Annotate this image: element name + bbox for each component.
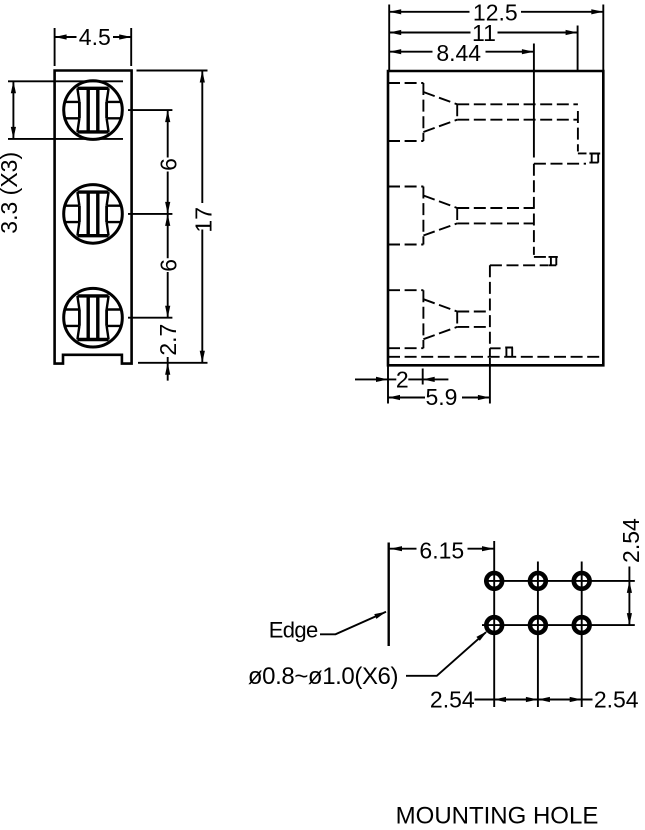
dimension 2 xyxy=(355,367,448,393)
svg-text:2.54: 2.54 xyxy=(430,686,475,712)
leader hole diameter xyxy=(248,629,489,690)
dimension 11 xyxy=(389,20,578,70)
dimension 2.54 vertical xyxy=(618,518,644,625)
hidden reflector 2 xyxy=(423,196,457,236)
svg-text:2.54: 2.54 xyxy=(618,518,644,563)
svg-text:4.5: 4.5 xyxy=(79,24,111,50)
dimension 2.7 xyxy=(155,324,181,381)
mounting hole B1 xyxy=(486,617,502,633)
svg-text:2: 2 xyxy=(396,367,409,393)
leader Edge xyxy=(269,609,388,642)
svg-text:Edge: Edge xyxy=(269,617,318,642)
svg-text:MOUNTING HOLE: MOUNTING HOLE xyxy=(396,803,599,830)
lead latch 1 xyxy=(589,154,600,163)
side view inner bottom dashed line xyxy=(388,356,603,358)
dimension 12.5 xyxy=(389,0,604,70)
edge line xyxy=(388,543,390,647)
svg-text:5.9: 5.9 xyxy=(426,384,458,410)
side view body xyxy=(388,71,603,365)
hidden lead 1 xyxy=(457,104,586,163)
svg-text:2.7: 2.7 xyxy=(155,324,181,356)
dimension 2.54 right xyxy=(538,686,639,712)
svg-text:17: 17 xyxy=(191,207,217,233)
dimension 4.5 xyxy=(55,24,132,66)
mounting hole A3 xyxy=(574,573,590,589)
svg-text:3.3 (X3): 3.3 (X3) xyxy=(0,152,22,234)
dimension 3.3 (X3) xyxy=(0,81,123,233)
dimension 5.9 xyxy=(388,358,490,410)
dimension 6 upper xyxy=(155,110,181,214)
mounting hole A1 xyxy=(486,573,502,589)
svg-text:8.44: 8.44 xyxy=(436,40,481,66)
dimension 17 xyxy=(137,71,217,363)
LED lens 1 xyxy=(64,81,123,140)
dimension 8.44 xyxy=(389,40,534,158)
lead latch 3 xyxy=(505,348,513,357)
hole grid lines xyxy=(482,541,635,707)
LED centerline extensions xyxy=(128,110,172,318)
hidden LED body 2 xyxy=(388,187,423,245)
dimension 6.15 xyxy=(390,538,495,564)
hidden LED body 1 xyxy=(388,83,423,141)
LED lens 3 xyxy=(64,288,123,347)
mounting hole B2 xyxy=(530,617,546,633)
hidden LED body 3 xyxy=(388,290,423,348)
mounting hole B3 xyxy=(574,617,590,633)
hidden lead 3 xyxy=(457,265,500,357)
lead latch 2 xyxy=(549,257,558,265)
LED lens 2 xyxy=(64,185,123,244)
front view body xyxy=(55,71,132,364)
hidden reflector 3 xyxy=(423,299,457,339)
svg-text:6.15: 6.15 xyxy=(419,538,464,564)
svg-text:6: 6 xyxy=(155,259,181,272)
svg-text:6: 6 xyxy=(155,158,181,171)
mounting hole A2 xyxy=(530,573,546,589)
dimension 6 lower xyxy=(155,214,181,318)
svg-text:2.54: 2.54 xyxy=(594,686,639,712)
hidden lead 2 xyxy=(457,164,548,266)
hidden reflector 1 xyxy=(423,92,457,132)
svg-text:ø0.8~ø1.0(X6): ø0.8~ø1.0(X6) xyxy=(248,663,398,690)
dimension 2.54 left xyxy=(430,686,538,712)
